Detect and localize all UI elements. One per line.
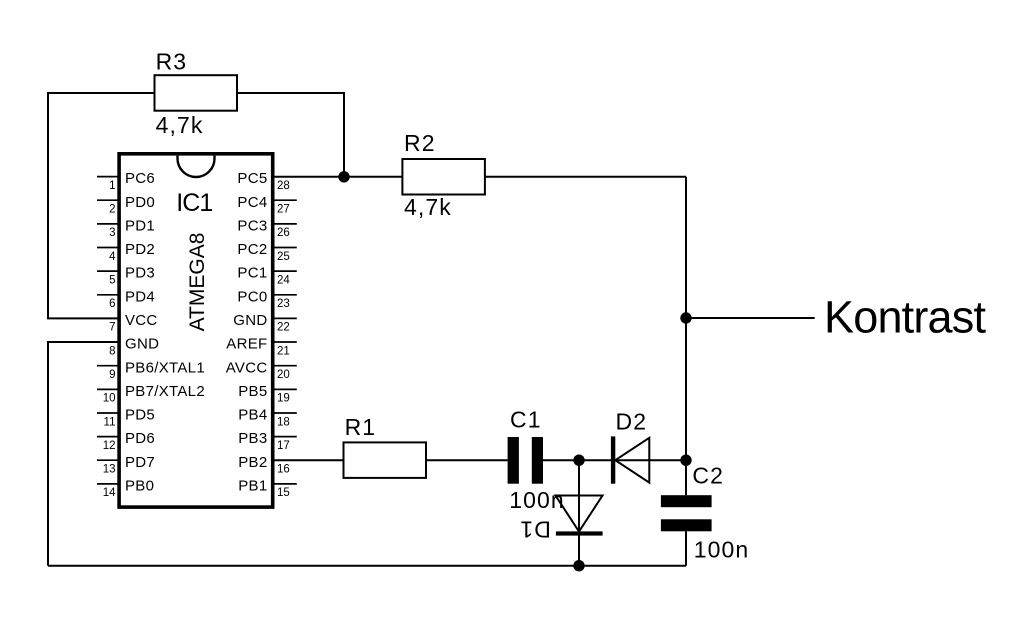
svg-text:100n: 100n (509, 487, 565, 513)
svg-text:AREF: AREF (226, 336, 267, 353)
ic IC1 notch (178, 156, 215, 177)
svg-text:PC5: PC5 (237, 170, 267, 187)
svg-text:4: 4 (109, 251, 116, 263)
node: junction R3/PC5/R2 (338, 171, 349, 182)
pin 5 PD3 (97, 265, 155, 287)
pin 2 PD0 (97, 194, 155, 216)
pin 1 PC6 (97, 170, 155, 192)
svg-text:Kontrast: Kontrast (824, 291, 986, 342)
pin 14 PB0 (97, 478, 154, 500)
pin 12 PD6 (97, 430, 155, 452)
wire: VCC pin7 left to R3 input (48, 93, 155, 318)
wire: C2 bottom to rail (685, 531, 687, 565)
svg-text:D2: D2 (616, 409, 648, 435)
svg-text:R1: R1 (345, 414, 377, 440)
capacitor C1 (508, 406, 565, 513)
svg-text:PC6: PC6 (125, 170, 155, 187)
pin 25 PC2 (237, 241, 296, 263)
svg-text:100n: 100n (694, 537, 750, 563)
wire: PC5 pin28 to R2 input (273, 176, 403, 178)
diode D1 (519, 496, 602, 543)
pin 24 PC1 (237, 265, 296, 287)
svg-text:8: 8 (109, 345, 115, 357)
wire: GND pin8 to bottom rail (48, 342, 119, 566)
svg-text:21: 21 (277, 345, 290, 357)
svg-text:6: 6 (109, 298, 115, 310)
svg-text:PC2: PC2 (237, 241, 267, 258)
svg-text:PB5: PB5 (238, 383, 267, 400)
svg-text:10: 10 (103, 393, 116, 405)
node: bottom rail junction (573, 560, 584, 571)
pin 10 PB7/XTAL2 (97, 383, 205, 405)
svg-text:5: 5 (109, 274, 115, 286)
svg-text:16: 16 (277, 464, 290, 476)
pin 18 PB4 (238, 407, 297, 429)
resistor R3 (155, 48, 238, 138)
wire: R1 to C1 (426, 459, 507, 461)
node: D1/D2 junction (573, 455, 584, 466)
svg-text:24: 24 (277, 274, 290, 286)
svg-text:22: 22 (277, 322, 290, 334)
svg-text:PD2: PD2 (125, 241, 155, 258)
svg-text:GND: GND (125, 336, 159, 353)
pin 17 PB3 (238, 430, 297, 452)
svg-text:PB1: PB1 (238, 478, 267, 495)
svg-text:14: 14 (103, 487, 116, 499)
svg-text:27: 27 (277, 204, 290, 216)
svg-text:1: 1 (109, 180, 115, 192)
svg-text:PD1: PD1 (125, 218, 155, 235)
svg-text:23: 23 (277, 298, 290, 310)
pin 8 GND (109, 336, 159, 358)
svg-text:ATMEGA8: ATMEGA8 (186, 233, 209, 332)
pin 11 PD5 (97, 407, 155, 429)
svg-text:AVCC: AVCC (226, 359, 268, 376)
pin 28 PC5 (237, 170, 289, 192)
svg-text:PD5: PD5 (125, 407, 155, 424)
pin 27 PC4 (237, 194, 296, 216)
ic IC1 ATMEGA8 body (119, 154, 273, 507)
svg-text:11: 11 (104, 416, 116, 428)
svg-text:PC3: PC3 (237, 218, 267, 235)
wire: bottom rail (48, 565, 686, 567)
svg-text:2: 2 (109, 204, 115, 216)
svg-text:19: 19 (277, 393, 290, 405)
svg-text:9: 9 (109, 369, 115, 381)
pin 20 AVCC (226, 359, 297, 381)
svg-text:PB6/XTAL1: PB6/XTAL1 (125, 359, 205, 376)
svg-text:28: 28 (277, 180, 290, 192)
pin 9 PB6/XTAL1 (97, 359, 205, 381)
svg-text:PD4: PD4 (125, 288, 155, 305)
svg-text:VCC: VCC (125, 312, 158, 329)
svg-text:18: 18 (277, 416, 290, 428)
svg-text:R2: R2 (404, 130, 436, 156)
svg-text:15: 15 (277, 487, 290, 499)
pin 7 VCC (109, 312, 157, 334)
node: right rail D2 junction (680, 455, 691, 466)
pin 13 PD7 (97, 454, 155, 476)
pin 4 PD2 (97, 241, 155, 263)
pin 21 AREF (226, 336, 297, 358)
svg-text:PD0: PD0 (125, 194, 155, 211)
svg-text:PC0: PC0 (237, 288, 267, 305)
pin 23 PC0 (237, 288, 296, 310)
svg-text:IC1: IC1 (176, 189, 212, 217)
wire: R2 output to right rail (485, 176, 686, 178)
wire: PB2 pin16 to R1 (273, 459, 344, 461)
svg-text:PD6: PD6 (125, 430, 155, 447)
svg-text:20: 20 (277, 369, 290, 381)
svg-text:R3: R3 (156, 48, 188, 74)
svg-text:12: 12 (103, 440, 116, 452)
svg-text:4,7k: 4,7k (156, 112, 204, 138)
pin 16 PB2 (238, 454, 290, 476)
resistor R1 (344, 414, 427, 478)
pin 15 PB1 (238, 478, 297, 500)
wire: C1 to D1/D2 node and through D2 to rail (543, 459, 686, 461)
svg-text:PB2: PB2 (238, 454, 267, 471)
svg-text:GND: GND (233, 312, 267, 329)
pin 19 PB5 (238, 383, 297, 405)
pin 6 PD4 (97, 288, 155, 310)
svg-text:3: 3 (109, 227, 115, 239)
svg-text:D1: D1 (519, 517, 551, 543)
wire: junction to Kontrast label (686, 317, 815, 319)
svg-text:26: 26 (277, 227, 290, 239)
svg-text:PC4: PC4 (237, 194, 267, 211)
pin 22 GND (233, 312, 297, 334)
wire: D1 to bottom junction (578, 460, 580, 566)
wire: right vertical rail (685, 177, 687, 495)
node: Kontrast junction (680, 312, 691, 323)
capacitor C2 (661, 462, 749, 562)
svg-text:PB4: PB4 (238, 407, 267, 424)
svg-text:PD3: PD3 (125, 265, 155, 282)
svg-text:PC1: PC1 (237, 265, 267, 282)
pin 3 PD1 (97, 218, 155, 240)
svg-text:PB7/XTAL2: PB7/XTAL2 (125, 383, 205, 400)
svg-text:PD7: PD7 (125, 454, 155, 471)
svg-text:PB3: PB3 (238, 430, 267, 447)
svg-text:4,7k: 4,7k (404, 194, 452, 220)
svg-text:25: 25 (277, 251, 290, 263)
diode D2 (611, 409, 649, 484)
svg-text:13: 13 (103, 464, 116, 476)
svg-text:7: 7 (109, 322, 115, 334)
svg-text:C2: C2 (692, 462, 724, 488)
svg-text:C1: C1 (510, 406, 542, 432)
wire: R3 output down to PC5/R2 junction (237, 93, 344, 177)
svg-text:17: 17 (277, 440, 290, 452)
pin 26 PC3 (237, 218, 296, 240)
svg-text:PB0: PB0 (125, 478, 154, 495)
resistor R2 (402, 130, 485, 220)
